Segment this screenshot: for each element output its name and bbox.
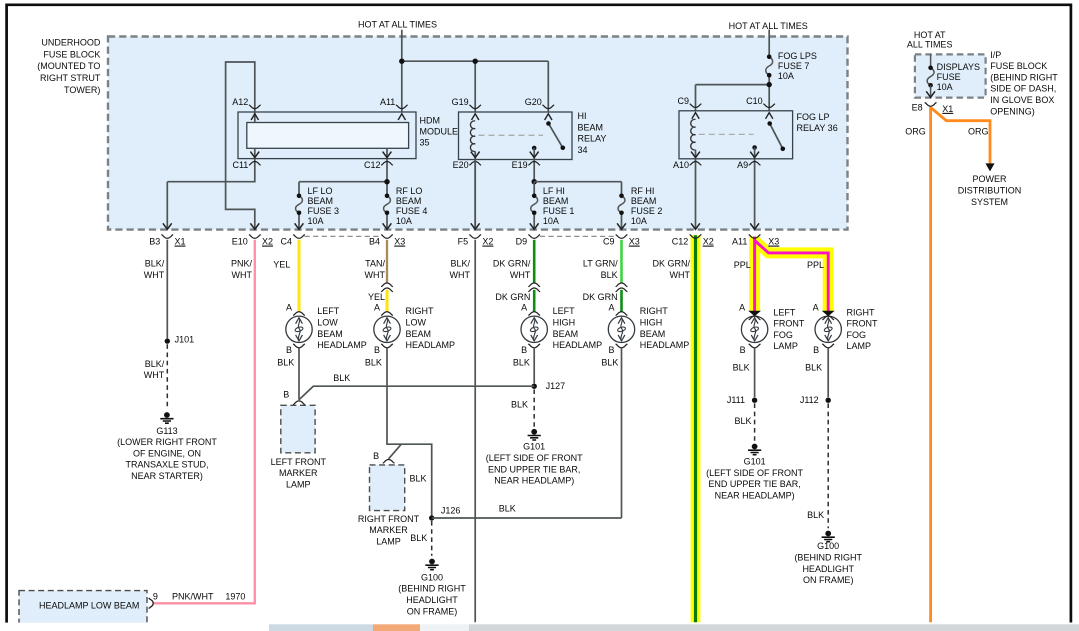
svg-text:WHT: WHT [510, 270, 531, 280]
relay K36 coil wires [695, 150, 697, 229]
svg-text:(BEHIND RIGHT: (BEHIND RIGHT [398, 584, 466, 594]
node bus junction A11 [399, 59, 404, 64]
svg-text:E20: E20 [453, 160, 469, 170]
svg-text:X2: X2 [482, 237, 493, 247]
svg-text:YEL: YEL [273, 260, 290, 270]
ground G100 right [825, 531, 831, 537]
pin A11 arrow [398, 114, 405, 120]
svg-text:BEAM: BEAM [308, 196, 334, 206]
pin A10 arrow [691, 152, 700, 158]
svg-text:BEAM: BEAM [317, 329, 343, 339]
svg-text:J127: J127 [546, 381, 566, 391]
svg-text:SIDE OF DASH,: SIDE OF DASH, [990, 84, 1056, 94]
pin A12 connector arc [249, 105, 261, 109]
relay K34 switch [549, 124, 563, 148]
svg-text:A9: A9 [737, 160, 748, 170]
svg-text:MARKER: MARKER [369, 525, 408, 535]
svg-text:B: B [374, 345, 380, 355]
pin G19 arrow [472, 114, 479, 120]
pin G19 connector arc [469, 105, 481, 109]
wire YEL B4 lower [386, 290, 389, 312]
splice C9 DK GRN [616, 283, 628, 287]
connector C12 arc [690, 235, 702, 239]
svg-text:WHT: WHT [232, 270, 253, 280]
svg-text:TOWER): TOWER) [64, 85, 100, 95]
svg-text:LOW: LOW [406, 318, 427, 328]
lamp right low beam headlamp [374, 316, 400, 342]
ground G100 left [429, 559, 435, 565]
headlamp low beam box [19, 591, 147, 624]
terminal B arc right fog [822, 344, 834, 348]
svg-text:A: A [286, 302, 292, 312]
I/P fuse block dashed box [915, 54, 986, 97]
pin A9 connector arc [749, 162, 761, 166]
lamp left high beam headlamp [521, 316, 547, 342]
svg-text:HI: HI [578, 111, 587, 121]
wire BLK dashed J126 to G100 [431, 521, 433, 556]
svg-text:TAN/: TAN/ [365, 259, 385, 269]
svg-text:ORG: ORG [968, 127, 989, 137]
pin E20 arrow [471, 152, 480, 158]
connector E8 arc [925, 103, 937, 107]
svg-text:BEAM: BEAM [553, 329, 579, 339]
pin G20 connector arc [542, 105, 554, 109]
arrow PPL into right fog lamp [822, 311, 835, 317]
svg-text:FUSE BLOCK: FUSE BLOCK [43, 49, 100, 59]
svg-text:G100: G100 [817, 541, 839, 551]
wire fuse to E8 [930, 85, 932, 97]
svg-text:BLK/: BLK/ [450, 259, 470, 269]
svg-text:FUSE 3: FUSE 3 [308, 206, 340, 216]
relay K34 coil [470, 121, 475, 152]
svg-text:BLK/: BLK/ [145, 359, 165, 369]
terminal A arc left low [293, 312, 305, 316]
svg-text:A: A [521, 302, 527, 312]
svg-text:BEAM: BEAM [396, 196, 422, 206]
svg-text:BLK: BLK [805, 362, 822, 372]
fuse F1 LF HI BEAM 10A [531, 196, 538, 213]
svg-text:G101: G101 [523, 442, 545, 452]
wire BLK dashed J127 to G101 [533, 389, 535, 426]
svg-text:(MOUNTED TO: (MOUNTED TO [37, 61, 100, 71]
connector F5 arc [469, 235, 481, 239]
svg-text:BEAM: BEAM [640, 329, 666, 339]
wire DK GRN D9 lower [533, 290, 536, 312]
svg-text:OPENING): OPENING) [990, 106, 1035, 116]
pin C11 arrow [250, 152, 259, 158]
svg-text:LOW: LOW [317, 318, 338, 328]
connector E10 arc [249, 235, 261, 239]
svg-text:MARKER: MARKER [279, 468, 318, 478]
svg-text:(LEFT SIDE OF FRONT: (LEFT SIDE OF FRONT [706, 468, 803, 478]
terminal A arc right high [616, 312, 628, 316]
svg-text:RIGHT: RIGHT [406, 306, 435, 316]
pin G20 arrow [545, 114, 552, 120]
svg-text:FOG LPS: FOG LPS [778, 51, 817, 61]
terminal B arc left fog [749, 344, 761, 348]
row connector dashed line D9-C9 [540, 235, 616, 237]
node C12 fuse branch [384, 179, 389, 184]
svg-text:FRONT: FRONT [847, 319, 878, 329]
HDM module outer box U35 [238, 112, 416, 159]
svg-text:LF HI: LF HI [543, 186, 565, 196]
svg-text:HIGH: HIGH [640, 318, 663, 328]
svg-text:J126: J126 [441, 505, 461, 515]
svg-text:PNK/: PNK/ [231, 259, 253, 269]
terminal B arc right high [616, 344, 628, 348]
connector A11 arc [749, 235, 761, 239]
svg-text:BLK: BLK [734, 416, 751, 426]
pin A12 arrow [251, 114, 258, 120]
wire fuse displays feed [930, 54, 932, 67]
pin C11 connector arc [249, 162, 261, 166]
svg-text:WHT: WHT [144, 270, 165, 280]
wire BLK left low B [298, 348, 300, 400]
exit arrow E8 [926, 91, 935, 97]
pin A9 arrow [750, 152, 759, 158]
exit arrow to A11 [750, 223, 759, 229]
svg-text:FUSE 4: FUSE 4 [396, 206, 428, 216]
svg-text:10A: 10A [778, 71, 794, 81]
node J127 [532, 384, 537, 389]
svg-text:BLK: BLK [601, 357, 618, 367]
row connector dashed line C4-B4 [305, 235, 382, 237]
svg-text:A: A [739, 302, 745, 312]
svg-text:(BEHIND RIGHT: (BEHIND RIGHT [794, 553, 862, 563]
svg-text:A11: A11 [380, 97, 395, 107]
terminal A arc right fog [822, 316, 834, 320]
pin C12 connector arc [381, 162, 393, 166]
svg-text:C10: C10 [746, 96, 763, 106]
svg-text:B3: B3 [149, 237, 160, 247]
wire highlighted DK GRN/WHT trace C12 [691, 235, 701, 622]
wire BLK diag right marker [389, 444, 402, 459]
svg-text:C9: C9 [603, 237, 615, 247]
svg-text:I/P: I/P [990, 50, 1001, 60]
svg-text:OF ENGINE, ON: OF ENGINE, ON [133, 448, 201, 458]
pin C12 wire [299, 148, 387, 229]
svg-text:WHT: WHT [365, 270, 386, 280]
svg-text:SYSTEM: SYSTEM [971, 197, 1008, 207]
wire hot feed right / fuse 7 column [696, 30, 770, 124]
wire YEL C4 column [298, 240, 301, 312]
svg-text:WHT: WHT [670, 270, 691, 280]
svg-text:J112: J112 [800, 395, 819, 405]
svg-text:HOT AT ALL TIMES: HOT AT ALL TIMES [358, 19, 437, 29]
svg-text:G100: G100 [421, 572, 443, 582]
svg-text:35: 35 [420, 138, 430, 148]
exit arrow to C4 [295, 223, 304, 229]
underhood fuse block dashed box [108, 37, 848, 230]
fuse F4 RF LO BEAM 10A [384, 196, 391, 213]
terminal A arc left fog [749, 316, 761, 320]
splice B4 YEL [381, 283, 393, 287]
connector D9 arc [528, 235, 540, 239]
relay K34 dashed link [479, 134, 544, 136]
wire BLK dashed J112 to G100 [827, 403, 829, 528]
svg-text:BLK: BLK [499, 503, 516, 513]
svg-text:FRONT: FRONT [773, 319, 804, 329]
svg-text:RF LO: RF LO [396, 186, 423, 196]
svg-text:FUSE 1: FUSE 1 [543, 206, 575, 216]
relay K36 dashed link [699, 133, 754, 135]
svg-text:J101: J101 [175, 334, 195, 344]
svg-text:DK GRN/: DK GRN/ [652, 259, 690, 269]
svg-text:10A: 10A [631, 216, 647, 226]
exit arrow to C9 [617, 223, 626, 229]
splice D9 DK GRN [528, 283, 540, 287]
svg-text:ALL TIMES: ALL TIMES [907, 40, 953, 50]
svg-text:RELAY: RELAY [578, 134, 607, 144]
pin A12 wire loop to E10 [226, 62, 255, 229]
ground G101 left [531, 429, 537, 435]
relay K36 coil [691, 119, 696, 150]
svg-text:LAMP: LAMP [773, 341, 798, 351]
svg-text:D9: D9 [516, 237, 528, 247]
svg-text:A12: A12 [232, 97, 248, 107]
svg-text:HDM: HDM [420, 115, 441, 125]
svg-text:C9: C9 [677, 96, 689, 106]
terminal B arc right marker [383, 460, 395, 464]
terminal B arc right low [381, 344, 393, 348]
svg-text:NEAR STARTER): NEAR STARTER) [131, 471, 203, 481]
svg-text:A: A [813, 302, 819, 312]
node E19 fuse branch [532, 179, 537, 184]
svg-text:RIGHT: RIGHT [847, 307, 876, 317]
svg-text:(LEFT SIDE OF FRONT: (LEFT SIDE OF FRONT [486, 453, 583, 463]
svg-text:X1: X1 [942, 104, 953, 114]
connector C9 arc [616, 235, 628, 239]
pin C10 arrow [766, 113, 773, 119]
exit arrow to C12 [691, 223, 700, 229]
svg-text:BLK: BLK [410, 533, 427, 543]
HDM module inner box [247, 123, 409, 149]
svg-text:BEAM: BEAM [543, 196, 569, 206]
svg-text:LT GRN/: LT GRN/ [583, 259, 618, 269]
svg-text:(LOWER RIGHT FRONT: (LOWER RIGHT FRONT [117, 437, 217, 447]
svg-text:DK GRN: DK GRN [583, 292, 618, 302]
svg-text:G101: G101 [744, 457, 766, 467]
svg-text:E8: E8 [912, 103, 923, 113]
wire BLK right fog B to J112 [827, 348, 829, 398]
svg-text:BLK: BLK [277, 357, 294, 367]
connector B3 arc [161, 235, 173, 239]
bottom white gap [0, 623, 1079, 625]
svg-text:B: B [521, 345, 527, 355]
pin A10 connector arc [690, 162, 702, 166]
svg-text:LEFT: LEFT [317, 306, 340, 316]
svg-text:B: B [283, 389, 289, 399]
svg-text:LF LO: LF LO [308, 186, 333, 196]
pin A11 connector arc [396, 105, 408, 109]
svg-text:UNDERHOOD: UNDERHOOD [41, 38, 101, 48]
node J101 [165, 338, 170, 343]
svg-text:DK GRN: DK GRN [495, 292, 530, 302]
relay K34 common contact [532, 146, 537, 151]
svg-text:LAMP: LAMP [847, 341, 872, 351]
wire TAN/WHT B4 column [386, 240, 388, 284]
svg-text:FOG: FOG [773, 330, 793, 340]
pin E19 arrow [530, 152, 539, 158]
terminal A arc left high [528, 312, 540, 316]
wire ORG E8 down [929, 107, 932, 622]
terminal B arc left high [528, 344, 540, 348]
wire LT GRN/BLK C9 column [620, 240, 623, 284]
lamp left low beam headlamp [286, 316, 312, 342]
svg-text:HEADLAMP LOW BEAM: HEADLAMP LOW BEAM [39, 601, 139, 611]
exit arrow to B3 [163, 223, 172, 229]
svg-text:BLK: BLK [511, 400, 528, 410]
svg-text:BLK/: BLK/ [145, 259, 165, 269]
relay K34 coil wires [474, 151, 476, 229]
lamp right high beam headlamp [608, 316, 634, 342]
svg-text:DISTRIBUTION: DISTRIBUTION [958, 186, 1022, 196]
svg-text:FUSE BLOCK: FUSE BLOCK [990, 61, 1047, 71]
svg-text:WHT: WHT [144, 370, 165, 380]
svg-text:DISPLAYS: DISPLAYS [937, 62, 980, 72]
svg-text:X3: X3 [394, 237, 405, 247]
pin E19 connector arc [528, 162, 540, 166]
exit arrow to D9 [530, 223, 539, 229]
svg-text:A: A [608, 302, 614, 312]
svg-text:PNK/WHT: PNK/WHT [172, 591, 214, 601]
pin E20 wire [474, 159, 476, 230]
svg-text:C4: C4 [280, 237, 292, 247]
svg-text:PPL: PPL [807, 260, 824, 270]
wire BLK J126 to right high beam [432, 517, 622, 519]
svg-text:HEADLIGHT: HEADLIGHT [406, 595, 458, 605]
svg-text:RIGHT STRUT: RIGHT STRUT [40, 73, 101, 83]
relay K36 switch [770, 124, 783, 149]
svg-text:LEFT: LEFT [773, 307, 796, 317]
svg-text:A11: A11 [732, 237, 747, 247]
wire highlighted PPL trace A11 to fog lamps [749, 237, 760, 313]
relay K36 common contact [752, 145, 757, 150]
svg-text:A: A [374, 302, 380, 312]
node J112 [826, 398, 831, 403]
svg-text:END UPPER TIE BAR,: END UPPER TIE BAR, [708, 479, 800, 489]
svg-text:G19: G19 [452, 97, 469, 107]
svg-text:G20: G20 [525, 97, 542, 107]
svg-text:X3: X3 [768, 237, 779, 247]
ground G101 fog [752, 444, 758, 450]
svg-text:B: B [813, 345, 819, 355]
svg-text:X2: X2 [703, 237, 714, 247]
svg-text:C12: C12 [364, 160, 381, 170]
fuse F7 FOG LPS 10A [766, 57, 773, 75]
svg-text:FUSE: FUSE [937, 72, 961, 82]
pin C11 wire to B3 [167, 148, 255, 229]
svg-text:BEAM: BEAM [578, 122, 604, 132]
wire E19 to fuses [534, 182, 621, 230]
svg-text:FUSE 7: FUSE 7 [778, 61, 810, 71]
wire BLK J127 to left marker [299, 386, 534, 400]
exit arrow to F5 [471, 223, 480, 229]
svg-text:G113: G113 [156, 426, 177, 436]
svg-text:A10: A10 [673, 160, 689, 170]
node bus junction G19 [473, 59, 478, 64]
svg-text:34: 34 [578, 145, 588, 155]
svg-text:HEADLAMP: HEADLAMP [317, 340, 367, 350]
svg-text:HIGH: HIGH [553, 318, 576, 328]
right front marker lamp box [370, 465, 405, 511]
svg-text:POWER: POWER [972, 174, 1007, 184]
svg-text:B4: B4 [369, 237, 380, 247]
svg-text:10A: 10A [543, 216, 559, 226]
svg-text:HEADLAMP: HEADLAMP [640, 340, 690, 350]
svg-text:PPL: PPL [734, 260, 751, 270]
svg-text:ON FRAME): ON FRAME) [803, 575, 854, 585]
connector B4 arc [381, 235, 393, 239]
wire DK GRN/WHT D9 column [533, 240, 536, 284]
fuse displays 10A [927, 68, 934, 86]
svg-text:BLK: BLK [601, 270, 618, 280]
svg-text:BLK: BLK [333, 373, 350, 383]
svg-text:NEAR HEADLAMP): NEAR HEADLAMP) [494, 476, 574, 486]
svg-text:RELAY 36: RELAY 36 [797, 123, 838, 133]
terminal B arc left marker [293, 401, 305, 405]
wire DK GRN C9 lower [620, 290, 623, 312]
wire ORG branch to power distribution [931, 108, 990, 164]
arrow PPL into left fog lamp [748, 311, 761, 317]
svg-text:HEADLIGHT: HEADLIGHT [802, 564, 854, 574]
svg-text:LEFT: LEFT [553, 306, 576, 316]
wire PNK/WHT E10 column [153, 240, 255, 604]
svg-text:HEADLAMP: HEADLAMP [553, 340, 603, 350]
bottom scrollbar strip [269, 624, 373, 631]
svg-text:RIGHT FRONT: RIGHT FRONT [358, 514, 420, 524]
connector C4 arc [293, 235, 305, 239]
svg-text:FOG LP: FOG LP [797, 112, 830, 122]
svg-text:ORG: ORG [905, 127, 926, 137]
node J111 [752, 398, 757, 403]
svg-text:MODULE: MODULE [420, 126, 459, 136]
relay K34 box [459, 112, 573, 160]
pin E20 connector arc [469, 162, 481, 166]
left front marker lamp box [281, 405, 315, 453]
svg-text:10A: 10A [937, 82, 953, 92]
svg-text:10A: 10A [396, 216, 412, 226]
ground G113 [164, 412, 170, 418]
svg-text:10A: 10A [308, 216, 324, 226]
svg-text:RF HI: RF HI [631, 186, 655, 196]
node fuse7 junction [767, 82, 772, 87]
svg-text:BLK: BLK [733, 362, 750, 372]
svg-text:DK GRN/: DK GRN/ [493, 259, 531, 269]
arrow ORG power distribution [985, 163, 994, 171]
svg-text:BEAM: BEAM [631, 196, 657, 206]
wire BLK right low B to J126 [387, 348, 432, 516]
svg-text:FOG: FOG [847, 330, 867, 340]
wire hot feed left bus [402, 30, 549, 124]
svg-text:BLK: BLK [513, 357, 530, 367]
svg-text:E10: E10 [232, 237, 248, 247]
lamp left front fog [741, 316, 767, 342]
svg-text:B: B [373, 451, 379, 461]
svg-text:RIGHT: RIGHT [640, 306, 669, 316]
svg-text:1970: 1970 [225, 591, 245, 601]
fuse F2 RF HI BEAM 10A [618, 196, 625, 213]
svg-text:X3: X3 [629, 237, 640, 247]
wire BLK dashed J111 to G101 [754, 403, 756, 441]
svg-text:NEAR HEADLAMP): NEAR HEADLAMP) [715, 490, 795, 500]
svg-text:FUSE 2: FUSE 2 [631, 206, 663, 216]
wire BLK right high B to J126 line [621, 348, 623, 518]
svg-text:B: B [608, 345, 614, 355]
svg-text:X1: X1 [175, 237, 186, 247]
pin C12 arrow [383, 152, 392, 158]
pin C10 connector arc [763, 104, 775, 108]
